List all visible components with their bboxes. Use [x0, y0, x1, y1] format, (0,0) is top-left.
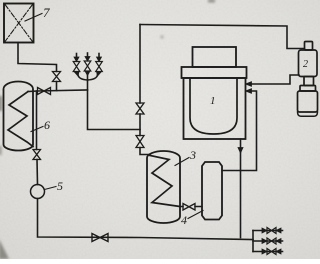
svg-text:3: 3 [189, 148, 196, 162]
svg-text:4: 4 [181, 213, 187, 227]
svg-text:6: 6 [44, 118, 50, 132]
svg-text:2: 2 [303, 59, 308, 70]
svg-text:7: 7 [43, 5, 50, 20]
svg-text:1: 1 [210, 95, 216, 107]
svg-text:5: 5 [57, 179, 63, 193]
